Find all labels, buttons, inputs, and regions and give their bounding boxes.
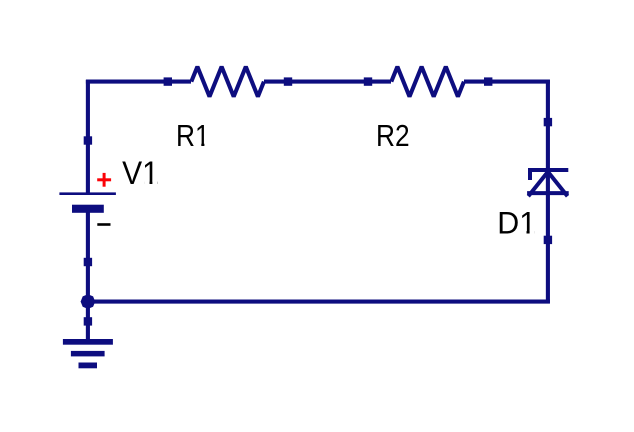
V1 pin 2 terminal square [84,258,92,266]
D1 triangle left side [528,172,548,197]
wire: left vertical segment (top-left corner to V1 top plate) [86,80,90,194]
D1 cathode bent stub [528,170,532,180]
wire: bottom horizontal segment (junction to bottom-right corner) [86,300,550,304]
resistor R1 [191,67,264,97]
R1 pin 1 terminal square [164,77,172,85]
svg-text:R1: R1 [176,118,210,153]
diode D1 (zener, cathode up) [527,170,569,196]
V1 top plate (positive, long thin) [59,192,116,195]
svg-text:V1: V1 [122,155,159,191]
wire: top horizontal segment right (R2 to top-right corner) [464,80,550,84]
D1 triangle base line [527,191,569,195]
D1 cathode bar [528,168,568,172]
R2 pin 2 terminal square [484,77,492,85]
V1 polarity plus sign [97,173,111,187]
junction node (left bottom) [81,294,96,309]
D1 pin 1 terminal square [544,118,552,126]
resistor R2 [391,67,464,97]
V1 polarity minus sign [97,223,110,226]
wire: right vertical segment (top-right corner to bottom-right corner, through D1) [546,80,550,303]
D1 pin 2 terminal square [544,236,552,244]
wire: left vertical segment (V1 bottom plate to ground) [86,208,90,343]
svg-text:R2: R2 [376,118,410,153]
voltage source V1 (battery) [59,192,116,212]
ground pin terminal square [84,317,92,325]
V1 pin 1 terminal square [84,136,92,144]
D1 triangle right side [548,172,568,197]
ground symbol [63,339,113,368]
wire: top horizontal segment middle (R1 to R2) [264,80,391,84]
V1 bottom plate (negative, short thick) [72,205,104,213]
R1 pin 2 terminal square [284,77,292,85]
wire: top horizontal segment left (corner to R1) [86,80,191,84]
R2 pin 1 terminal square [364,77,372,85]
svg-text:D1: D1 [497,204,536,240]
